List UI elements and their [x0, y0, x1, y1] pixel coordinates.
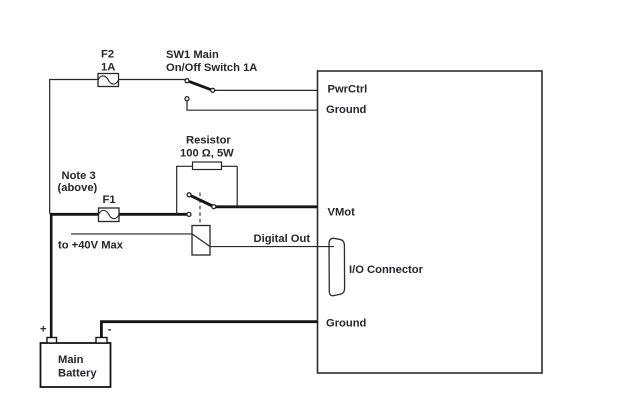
svg-text:Note 3: Note 3	[62, 170, 96, 182]
switch SW1 upper contact	[185, 79, 189, 83]
wire: thick feed through F1 to SW2 contact	[50, 213, 187, 216]
fuse F1 body	[99, 208, 120, 222]
relay driver K1 box	[192, 226, 210, 256]
svg-text:F2: F2	[101, 49, 114, 61]
svg-text:Ground: Ground	[326, 104, 367, 116]
controller box U1	[318, 71, 543, 373]
wire: resistor right branch to VMot wire	[236, 166, 238, 206]
battery + terminal	[47, 338, 57, 344]
switch SW1 lower contact	[185, 97, 189, 101]
svg-text:Resistor: Resistor	[186, 135, 231, 147]
I/O connector shell	[329, 238, 345, 296]
svg-text:Ground: Ground	[326, 318, 367, 330]
wire: SW1 pivot to PwrCtrl pin	[215, 89, 318, 91]
svg-text:On/Off Switch 1A: On/Off Switch 1A	[166, 62, 257, 74]
svg-text:I/O Connector: I/O Connector	[349, 264, 424, 276]
fuse F2 body	[98, 74, 119, 87]
svg-text:PwrCtrl: PwrCtrl	[328, 84, 368, 96]
wire: Digital Out from relay driver to I/O connector	[210, 246, 334, 248]
svg-text:100 Ω, 5W: 100 Ω, 5W	[180, 148, 234, 160]
switch SW2 upper contact	[187, 193, 191, 197]
svg-text:to +40V Max: to +40V Max	[58, 240, 124, 252]
svg-text:+: +	[40, 324, 47, 336]
svg-text:Digital Out: Digital Out	[254, 233, 311, 245]
wire: battery + vertical (thick)	[50, 213, 53, 338]
switch SW2 pivot	[212, 205, 216, 209]
svg-text:F1: F1	[103, 194, 116, 206]
wire: resistor left branch	[176, 166, 178, 213]
svg-text:1A: 1A	[101, 62, 115, 74]
wire: battery - to Ground pin (thick)	[101, 322, 317, 338]
switch SW1 blade	[187, 81, 213, 91]
resistor R (100 ohm 5W) body	[193, 162, 222, 170]
svg-text:VMot: VMot	[328, 207, 356, 219]
switch SW2 blade	[189, 195, 214, 207]
svg-text:SW1 Main: SW1 Main	[166, 49, 219, 61]
wire: VMot feed (thick) from SW2 pivot to VMot pin	[215, 205, 317, 208]
wire: resistor right lead	[222, 165, 238, 167]
svg-text:Battery: Battery	[58, 368, 97, 380]
switch SW2 lower contact	[187, 212, 191, 216]
mechanical link dashed line SW2 to relay	[199, 193, 201, 226]
wire: F2 feed from left rail to SW1	[50, 79, 186, 81]
battery BT1 box	[41, 343, 111, 387]
wire: SW1 lower contact to Ground pin	[187, 101, 318, 110]
wire: +40V input to relay driver	[71, 233, 192, 235]
switch SW1 pivot	[211, 88, 215, 92]
svg-text:Main: Main	[58, 354, 84, 366]
svg-text:(above): (above)	[58, 182, 98, 194]
wire: left rail vertical (battery + to F2)	[49, 79, 51, 214]
battery - terminal	[96, 338, 107, 344]
wire: resistor left lead	[176, 165, 192, 167]
svg-text:-: -	[108, 323, 112, 335]
